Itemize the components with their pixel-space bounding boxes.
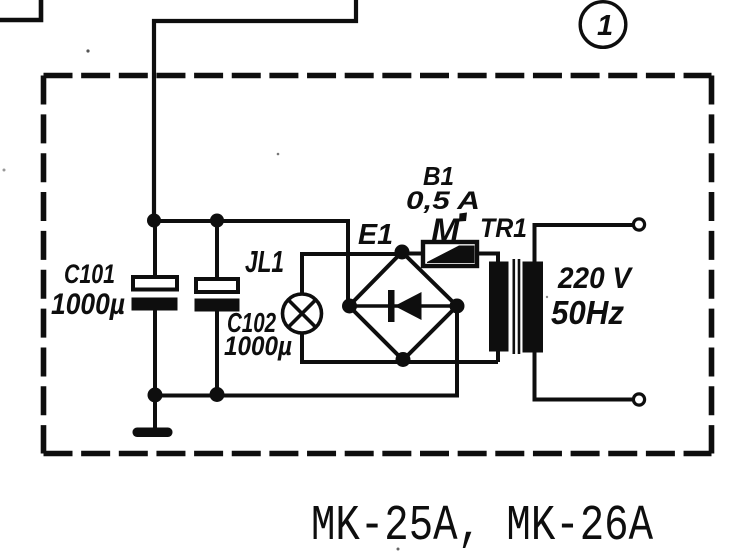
svg-text:E1: E1 [358, 219, 393, 251]
junction node bottom C101 [148, 388, 163, 403]
speck [397, 548, 400, 551]
svg-text:C101: C101 [64, 259, 115, 289]
terminal bottom (220V) [633, 394, 644, 405]
capacitor C102 [195, 220, 240, 395]
svg-text:MK-25A, MK-26A: MK-25A, MK-26A [311, 498, 653, 551]
junction node top C102 [210, 214, 224, 228]
svg-text:1000µ: 1000µ [224, 331, 292, 361]
terminal top (220V) [633, 219, 644, 230]
wire secondary bottom to terminal [535, 351, 634, 400]
svg-text:JL1: JL1 [245, 244, 284, 279]
wire primary bottom stub [496, 350, 500, 362]
speck [86, 49, 89, 52]
wire: bottom rail y=362 lamp/bridge/transformer [302, 332, 498, 362]
fuse B1 [423, 242, 477, 266]
bridge rectifier E1 [349, 252, 457, 360]
wire bridge top to fuse [402, 252, 423, 256]
node bridge top [395, 245, 410, 260]
svg-text:TR1: TR1 [480, 213, 527, 243]
transformer core [514, 259, 519, 354]
svg-text:220 V: 220 V [557, 262, 634, 295]
svg-text:1: 1 [597, 10, 613, 42]
svg-text:0,5 A: 0,5 A [406, 187, 480, 215]
lamp JL1 [283, 294, 322, 333]
svg-text:1000µ: 1000µ [51, 288, 125, 321]
wire: feed from top into box [154, 0, 356, 222]
wire: return rail y=395 [155, 306, 457, 396]
dashed border frame [44, 76, 712, 454]
figure number circle 1 [580, 2, 626, 48]
node bridge right [450, 299, 465, 314]
wire: corner of adjacent figure top-left [0, 0, 41, 20]
wire secondary top to terminal [535, 225, 634, 263]
wire fuse to transformer primary [477, 254, 498, 265]
speck [277, 153, 280, 156]
capacitor C101 [132, 220, 178, 396]
svg-text:M: M [431, 212, 460, 250]
wire: positive rail y=221 [154, 221, 348, 306]
ground [133, 395, 173, 437]
wire: lamp top branch [302, 254, 402, 295]
svg-text:50Hz: 50Hz [551, 294, 624, 331]
transformer TR1 secondary winding [523, 262, 544, 353]
node bridge left [342, 299, 357, 314]
speck [546, 296, 548, 298]
junction node top C101 [147, 214, 161, 228]
node bridge bottom [396, 352, 411, 367]
junction node bottom C102 [210, 387, 225, 402]
speck [3, 169, 6, 172]
transformer TR1 primary winding [489, 262, 509, 352]
